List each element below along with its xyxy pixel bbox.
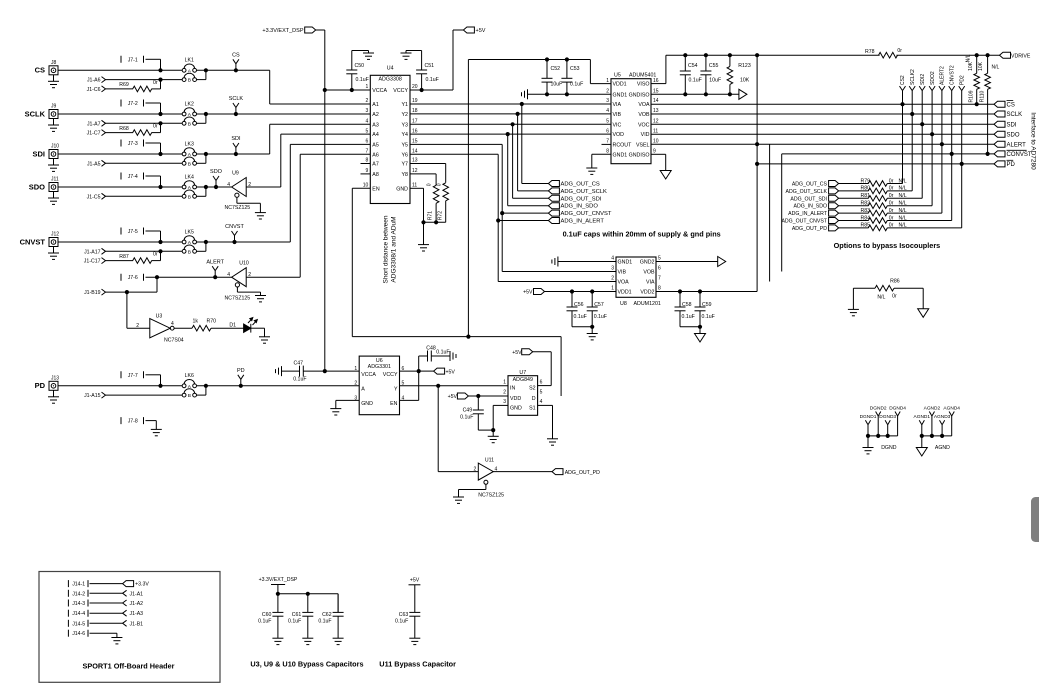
wire U10 input to U4 A6 bbox=[246, 154, 370, 277]
ground GND1 side bbox=[522, 89, 612, 99]
svg-text:R80: R80 bbox=[861, 186, 871, 192]
node CNVST net flag bbox=[225, 224, 244, 242]
svg-text:+5V: +5V bbox=[523, 290, 533, 296]
svg-text:ADG_OUT_CNVST: ADG_OUT_CNVST bbox=[561, 211, 612, 217]
svg-text:U8: U8 bbox=[620, 301, 627, 307]
svg-text:ADG3308/1 and ADuM: ADG3308/1 and ADuM bbox=[391, 216, 398, 282]
svg-text:PD: PD bbox=[1007, 162, 1016, 168]
svg-text:R83: R83 bbox=[861, 208, 871, 214]
svg-text:DGND2: DGND2 bbox=[870, 405, 887, 411]
IC U5 ADUM5401 bbox=[606, 73, 659, 164]
flag ADG_IN_SDO bbox=[794, 203, 839, 210]
svg-text:R78: R78 bbox=[865, 49, 875, 55]
wire U7 S1 to ground bbox=[538, 405, 553, 438]
wire Y1 bus row bbox=[410, 102, 611, 106]
svg-text:0r: 0r bbox=[153, 252, 158, 258]
svg-text:ADG_OUT_CNVST: ADG_OUT_CNVST bbox=[781, 219, 827, 225]
flag CONVST to AD7280 bbox=[994, 150, 1032, 158]
wire SCLK row to U4 A2 bbox=[197, 112, 371, 116]
resistor R109 10K N/L bbox=[966, 54, 980, 104]
svg-text:1k: 1k bbox=[193, 319, 199, 325]
flag J1-A1 bbox=[90, 590, 144, 597]
IC U7 ADG849 bbox=[503, 370, 542, 415]
svg-text:GND: GND bbox=[361, 401, 373, 407]
wire CS row to A1 jog bbox=[197, 68, 270, 72]
svg-text:0r: 0r bbox=[153, 80, 158, 86]
link LK6 bbox=[182, 373, 196, 399]
wire SDI out row bbox=[651, 122, 994, 126]
svg-text:20: 20 bbox=[412, 84, 418, 90]
note options to bypass isocouplers bbox=[834, 241, 941, 250]
ground U7/C49 bbox=[488, 436, 499, 442]
svg-text:9: 9 bbox=[366, 168, 369, 174]
svg-text:2: 2 bbox=[474, 466, 477, 472]
svg-text:J1-A15: J1-A15 bbox=[84, 393, 101, 399]
buffer U9 NC7SZ125 bbox=[225, 171, 252, 212]
svg-text:J14-2: J14-2 bbox=[72, 591, 85, 597]
wire PD out row bbox=[755, 162, 994, 166]
svg-text:SDI2: SDI2 bbox=[920, 74, 926, 85]
wire AGND join bbox=[920, 434, 952, 451]
wire CNVST rise to U4 A5 bbox=[290, 144, 370, 242]
svg-text:J1-C5: J1-C5 bbox=[87, 194, 101, 200]
wire U5 GND1 pin8 to ground bbox=[592, 154, 611, 168]
svg-text:1: 1 bbox=[354, 366, 357, 372]
wire DGND join bbox=[866, 434, 898, 451]
flag ADG_OUT_CS bbox=[548, 181, 600, 188]
svg-text:CNVST: CNVST bbox=[20, 237, 46, 246]
svg-text:CS2: CS2 bbox=[900, 75, 906, 85]
svg-text:SCLK2: SCLK2 bbox=[910, 69, 916, 85]
svg-text:C55: C55 bbox=[709, 63, 719, 69]
svg-text:ADG_OUT_SDI: ADG_OUT_SDI bbox=[561, 196, 602, 202]
svg-text:C48: C48 bbox=[426, 346, 436, 352]
svg-text:C50: C50 bbox=[355, 63, 365, 69]
svg-text:DGND4: DGND4 bbox=[889, 405, 906, 411]
node SCLK2 net flag bbox=[909, 69, 916, 96]
wire U9 input to U4 A4 bbox=[246, 134, 370, 187]
resistor R81 0r N/L bbox=[839, 193, 923, 201]
svg-text:J7-7: J7-7 bbox=[128, 373, 138, 379]
flag J1-A6 bbox=[87, 77, 106, 84]
svg-text:NC7S04: NC7S04 bbox=[164, 338, 184, 344]
svg-text:+3.3V/EXT_DSP: +3.3V/EXT_DSP bbox=[262, 28, 303, 34]
wire C47 to U6 VCCA bbox=[325, 370, 359, 372]
flag SDI to AD7280 bbox=[994, 121, 1017, 128]
capacitor C59 0.1uF bbox=[695, 292, 715, 327]
svg-text:8: 8 bbox=[366, 158, 369, 164]
wire Y6 row to drop bbox=[410, 153, 498, 155]
jumper J7-3 bbox=[121, 140, 161, 155]
ground U10 bbox=[255, 296, 266, 302]
svg-text:A7: A7 bbox=[372, 162, 379, 168]
wire LK2 B out bbox=[197, 112, 208, 123]
svg-text:VIA: VIA bbox=[613, 102, 622, 108]
note short distance bbox=[383, 215, 398, 283]
svg-text:C58: C58 bbox=[682, 302, 692, 308]
svg-text:N/L: N/L bbox=[992, 65, 1000, 71]
connector J8 (CS input) bbox=[35, 60, 59, 88]
svg-text:7: 7 bbox=[606, 139, 609, 145]
svg-text:Y4: Y4 bbox=[402, 132, 409, 138]
node CNVST2 net flag bbox=[949, 65, 956, 95]
svg-text:2: 2 bbox=[606, 89, 609, 95]
flag J1-A15 bbox=[84, 392, 105, 399]
svg-text:5: 5 bbox=[366, 128, 369, 134]
svg-text:U9: U9 bbox=[232, 171, 239, 177]
svg-text:LK3: LK3 bbox=[185, 141, 194, 147]
svg-text:AGND3: AGND3 bbox=[934, 414, 951, 420]
ground C56/C57 bbox=[587, 334, 598, 340]
ground C48 side bbox=[450, 351, 456, 361]
ground GNDISO pin9 triangle bbox=[660, 171, 671, 180]
flag PD to AD7280 bbox=[994, 160, 1016, 168]
node AGND3 net flag bbox=[934, 414, 951, 436]
jumper J7-4 bbox=[121, 173, 161, 188]
ground AGND bbox=[916, 448, 927, 457]
svg-text:10uF: 10uF bbox=[709, 78, 721, 84]
note bypass caps caption bbox=[250, 660, 363, 669]
resistor R82 0r N/L bbox=[839, 201, 933, 209]
wire SCLK2 vertical bbox=[911, 96, 913, 191]
svg-text:J14-1: J14-1 bbox=[72, 582, 85, 588]
svg-text:+5V: +5V bbox=[476, 28, 486, 34]
svg-text:J14-4: J14-4 bbox=[72, 611, 85, 617]
svg-text:C56: C56 bbox=[574, 302, 584, 308]
wire LK5 B out bbox=[197, 240, 208, 251]
resistor R85 0r N/L bbox=[839, 223, 962, 231]
svg-text:C52: C52 bbox=[551, 66, 561, 72]
ground U7 S1 bbox=[547, 439, 558, 445]
svg-text:C51: C51 bbox=[425, 63, 435, 69]
IC U4 ADG3308 bbox=[363, 66, 418, 204]
svg-text:R87: R87 bbox=[119, 254, 129, 260]
svg-text:VCCA: VCCA bbox=[372, 88, 387, 94]
svg-text:CNVST2: CNVST2 bbox=[949, 65, 955, 85]
ground U11 bbox=[453, 497, 464, 503]
capacitor C61 0.1uF bbox=[288, 594, 313, 638]
svg-text:VDD2: VDD2 bbox=[640, 290, 654, 296]
svg-text:Interface to AD7280: Interface to AD7280 bbox=[1030, 112, 1037, 170]
capacitor C49 0.1uF bbox=[460, 396, 484, 430]
svg-text:2: 2 bbox=[354, 381, 357, 387]
wire U9 pin1 to ground bbox=[237, 197, 261, 212]
svg-text:J14-5: J14-5 bbox=[72, 621, 85, 627]
wire +3.3V rail down to U6 VCCA bbox=[323, 30, 327, 373]
wire C56/C57 ground join bbox=[572, 325, 594, 334]
svg-text:Y1: Y1 bbox=[402, 102, 409, 108]
link LK2 bbox=[182, 101, 196, 127]
wire SDO2 vertical bbox=[931, 96, 933, 206]
svg-text:J10: J10 bbox=[51, 144, 59, 150]
flag ALERT to AD7280 bbox=[994, 141, 1026, 148]
svg-text:6: 6 bbox=[606, 128, 609, 134]
svg-text:J1-C7: J1-C7 bbox=[87, 131, 101, 137]
svg-text:SDO: SDO bbox=[29, 182, 45, 191]
flag J1-A7 bbox=[87, 120, 106, 127]
svg-text:ADG_OUT_SCLK: ADG_OUT_SCLK bbox=[561, 189, 608, 195]
svg-text:SDI: SDI bbox=[32, 149, 45, 158]
svg-text:0.1uF: 0.1uF bbox=[689, 78, 702, 84]
capacitor C47 0.1uF bbox=[293, 361, 325, 383]
svg-text:Y2: Y2 bbox=[402, 112, 409, 118]
capacitor C56 0.1uF bbox=[567, 292, 587, 327]
svg-text:14: 14 bbox=[412, 149, 418, 155]
svg-text:Y3: Y3 bbox=[402, 122, 409, 128]
flag J1-A17 bbox=[84, 248, 105, 255]
svg-text:1: 1 bbox=[611, 286, 614, 292]
svg-text:J1-A6: J1-A6 bbox=[87, 78, 101, 84]
svg-text:GND1: GND1 bbox=[613, 92, 628, 98]
wire SDI row from J10 to LK3 bbox=[58, 152, 182, 156]
flag SDO to AD7280 bbox=[994, 131, 1020, 138]
ground C50 bbox=[352, 51, 374, 60]
svg-text:C59: C59 bbox=[702, 302, 712, 308]
power flag +5V U7 VDD bbox=[448, 393, 508, 400]
svg-text:B: B bbox=[188, 78, 191, 84]
svg-text:DGND3: DGND3 bbox=[879, 414, 896, 420]
svg-text:U10: U10 bbox=[239, 261, 249, 267]
flag J1-C7 bbox=[87, 130, 106, 137]
ground C61 bbox=[302, 638, 313, 644]
svg-text:12: 12 bbox=[653, 119, 659, 125]
svg-text:0.1uF: 0.1uF bbox=[702, 314, 715, 320]
wire U10 pin1 to ground bbox=[237, 287, 260, 296]
svg-text:11: 11 bbox=[653, 128, 658, 134]
wire U4 GND to ground bbox=[410, 188, 446, 244]
node DGND1 net flag bbox=[860, 414, 877, 436]
ground C51 bbox=[401, 51, 422, 60]
wire J1-A5 to LK3 B bbox=[106, 162, 183, 164]
svg-text:C62: C62 bbox=[322, 612, 332, 618]
wire U6 GND to ground bbox=[336, 400, 359, 408]
svg-text:VOA: VOA bbox=[638, 102, 650, 108]
svg-text:R68: R68 bbox=[119, 126, 129, 132]
LED D1 bbox=[229, 318, 257, 333]
svg-text:R71: R71 bbox=[427, 211, 433, 220]
resistor R87 0r bbox=[106, 251, 161, 263]
svg-text:B: B bbox=[188, 249, 191, 255]
svg-text:LK6: LK6 bbox=[185, 373, 194, 379]
ground R86 right triangle bbox=[918, 309, 929, 318]
svg-text:J1-B1: J1-B1 bbox=[130, 621, 144, 627]
note interface to AD7280 bbox=[1030, 112, 1037, 170]
note U11 bypass caption bbox=[379, 660, 456, 669]
svg-text:ADUM1201: ADUM1201 bbox=[634, 301, 661, 307]
svg-text:SCLK: SCLK bbox=[25, 109, 46, 118]
svg-text:J1-A7: J1-A7 bbox=[87, 121, 101, 127]
pin J14-4 bbox=[68, 610, 88, 618]
power flag +5V top bbox=[453, 27, 486, 34]
wire U8 VDD2 rise to rail bbox=[756, 55, 758, 291]
wire J1-A15 to LK6 B bbox=[106, 394, 183, 396]
svg-text:VOC: VOC bbox=[638, 122, 650, 128]
svg-text:N/L: N/L bbox=[877, 295, 885, 301]
svg-text:CS: CS bbox=[232, 53, 240, 59]
wire J1-A7 to LK2 B bbox=[106, 121, 183, 125]
svg-text:LK5: LK5 bbox=[185, 229, 194, 235]
wire drop to ADG_OUT_CNVST and U8 VIB bbox=[500, 144, 616, 271]
wire SDO row to U9 output bbox=[197, 185, 232, 189]
svg-text:A2: A2 bbox=[372, 112, 379, 118]
svg-text:8: 8 bbox=[606, 149, 609, 155]
svg-text:R84: R84 bbox=[861, 215, 871, 221]
svg-text:GNDISO: GNDISO bbox=[629, 92, 650, 98]
wire enable line to U7 D bbox=[352, 335, 561, 397]
scrollbar thumb bbox=[1031, 497, 1039, 542]
svg-text:VCCY: VCCY bbox=[383, 372, 398, 378]
svg-text:B: B bbox=[188, 121, 191, 127]
svg-text:D: D bbox=[532, 396, 536, 402]
connector J9 (SCLK input) bbox=[25, 104, 59, 132]
resistor R79 0r N/L bbox=[839, 178, 907, 186]
node AGND2 net flag bbox=[924, 405, 941, 436]
svg-text:10K: 10K bbox=[740, 78, 750, 84]
svg-text:NC7SZ125: NC7SZ125 bbox=[225, 296, 251, 302]
svg-text:SPORT1 Off-Board Header: SPORT1 Off-Board Header bbox=[82, 662, 174, 671]
svg-text:ALERT: ALERT bbox=[206, 259, 224, 265]
wire ALERT2 vertical bbox=[941, 96, 943, 214]
svg-text:VDD1: VDD1 bbox=[613, 82, 627, 88]
svg-text:U11: U11 bbox=[485, 458, 494, 464]
svg-text:ADG_OUT_CS: ADG_OUT_CS bbox=[792, 182, 828, 188]
svg-text:S1: S1 bbox=[529, 405, 536, 411]
flag GNDISO triangle bbox=[739, 89, 747, 99]
svg-text:1: 1 bbox=[503, 379, 506, 385]
wire U6 VCCY node bbox=[400, 356, 421, 373]
buffer U10 NC7SZ125 bbox=[225, 261, 252, 302]
flag ADG_OUT_PD bbox=[552, 469, 600, 476]
svg-text:+5V: +5V bbox=[446, 369, 456, 375]
svg-text:0.1uF: 0.1uF bbox=[570, 82, 583, 88]
svg-text:J1-C6: J1-C6 bbox=[87, 87, 101, 93]
svg-text:U3, U9 & U10 Bypass Capacitors: U3, U9 & U10 Bypass Capacitors bbox=[250, 660, 363, 669]
wire Y4 bus row bbox=[410, 132, 611, 136]
svg-text:U5: U5 bbox=[614, 73, 621, 79]
svg-text:C53: C53 bbox=[570, 66, 580, 72]
svg-text:7: 7 bbox=[366, 149, 369, 155]
svg-text:J12: J12 bbox=[51, 232, 59, 238]
capacitor C53 0.1uF bbox=[561, 60, 583, 95]
capacitor C50 0.1uF bbox=[346, 51, 368, 91]
node AGND1 net flag bbox=[914, 414, 931, 436]
svg-text:PD2: PD2 bbox=[959, 75, 965, 85]
flag ADG_OUT_PD bbox=[792, 225, 839, 232]
node ALERT net flag bbox=[206, 259, 224, 277]
wire Y5 row to drop bbox=[410, 143, 502, 145]
wire C58/C59 ground join bbox=[680, 325, 702, 334]
resistor R70 1k bbox=[192, 319, 216, 332]
power flag +5V U6 VCCY bbox=[419, 368, 456, 375]
svg-text:R85: R85 bbox=[861, 223, 871, 229]
svg-text:J7-5: J7-5 bbox=[128, 229, 138, 235]
svg-text:+5V: +5V bbox=[448, 394, 458, 400]
ground U9 bbox=[255, 213, 266, 219]
svg-text:CS: CS bbox=[1007, 102, 1015, 108]
svg-text:9: 9 bbox=[653, 149, 656, 155]
svg-text:SCLK: SCLK bbox=[1007, 112, 1023, 118]
svg-text:SDI: SDI bbox=[1007, 122, 1017, 128]
svg-text:AGND1: AGND1 bbox=[914, 414, 931, 420]
resistor R71 0 bbox=[426, 183, 439, 222]
svg-text:CS: CS bbox=[35, 66, 45, 75]
wire J1-B19 to ALERT row bbox=[106, 277, 158, 294]
jumper J7-6 bbox=[121, 274, 144, 282]
svg-text:Y7: Y7 bbox=[402, 162, 409, 168]
svg-text:1: 1 bbox=[606, 78, 609, 84]
svg-text:VCCA: VCCA bbox=[361, 372, 376, 378]
svg-text:VOD: VOD bbox=[613, 132, 625, 138]
resistor R83 0r N/L bbox=[839, 208, 942, 216]
wire SDI rise to U4 A3 bbox=[270, 124, 371, 154]
svg-text:J1-A5: J1-A5 bbox=[87, 161, 101, 167]
svg-text:4: 4 bbox=[227, 182, 230, 188]
pin J14-6 bbox=[68, 630, 88, 638]
svg-text:C47: C47 bbox=[293, 361, 303, 367]
inverter U3 NC7S04 bbox=[136, 314, 184, 344]
node DGND3 net flag bbox=[879, 414, 896, 436]
svg-text:R79: R79 bbox=[861, 178, 871, 184]
wire drop to ADG_OUT_CS bbox=[522, 104, 549, 184]
svg-text:NC7SZ125: NC7SZ125 bbox=[478, 493, 504, 499]
svg-text:J7-6: J7-6 bbox=[128, 275, 138, 281]
svg-text:VIC: VIC bbox=[613, 122, 622, 128]
svg-text:ADG_OUT_PD: ADG_OUT_PD bbox=[792, 226, 827, 232]
svg-text:U7: U7 bbox=[519, 370, 526, 376]
svg-text:3: 3 bbox=[503, 399, 506, 405]
svg-text:13: 13 bbox=[412, 158, 418, 164]
svg-text:NC7SZ125: NC7SZ125 bbox=[225, 205, 251, 211]
svg-text:LK1: LK1 bbox=[185, 58, 194, 64]
svg-text:0.1uF: 0.1uF bbox=[574, 314, 587, 320]
wire J7-8 to ground bbox=[146, 421, 157, 430]
svg-text:J7-3: J7-3 bbox=[128, 141, 138, 147]
svg-text:4: 4 bbox=[171, 321, 174, 327]
svg-text:Y: Y bbox=[394, 387, 398, 393]
svg-text:3: 3 bbox=[606, 98, 609, 104]
wire SDI2 vertical bbox=[921, 96, 923, 199]
svg-text:J1-A3: J1-A3 bbox=[130, 611, 144, 617]
flag ADG_IN_ALERT bbox=[548, 218, 604, 225]
flag J1-B1 bbox=[90, 620, 144, 627]
svg-text:A8: A8 bbox=[372, 172, 379, 178]
wire SCLK row from J9 to LK2 bbox=[58, 112, 182, 116]
power flag VDRIVE bbox=[1000, 52, 1031, 59]
svg-text:GND: GND bbox=[396, 186, 408, 192]
svg-text:VISO: VISO bbox=[637, 82, 650, 88]
svg-text:J13: J13 bbox=[51, 375, 59, 381]
pin J14-1 bbox=[68, 580, 88, 588]
resistor R80 0r N/L bbox=[839, 186, 913, 194]
svg-text:4: 4 bbox=[606, 108, 609, 114]
svg-text:J1-C17: J1-C17 bbox=[84, 259, 101, 265]
wire CS out row bbox=[651, 102, 994, 106]
svg-text:ADG_OUT_SDI: ADG_OUT_SDI bbox=[790, 196, 827, 202]
svg-text:Y6: Y6 bbox=[402, 152, 409, 158]
svg-text:14: 14 bbox=[653, 98, 659, 104]
buffer U11 NC7SZ125 bbox=[474, 458, 505, 499]
svg-text:J7-1: J7-1 bbox=[128, 57, 138, 63]
flag ADG_OUT_SDI bbox=[790, 195, 838, 202]
svg-text:VSEL: VSEL bbox=[636, 142, 650, 148]
capacitor C60 0.1uF bbox=[258, 594, 283, 638]
wire U4 Y8 to R71 bbox=[410, 174, 436, 185]
svg-text:GND: GND bbox=[510, 405, 522, 411]
wire +5V iso rail bbox=[468, 57, 611, 336]
svg-text:ADG_IN_ALERT: ADG_IN_ALERT bbox=[561, 219, 605, 225]
svg-text:R70: R70 bbox=[207, 319, 217, 325]
link LK4 bbox=[182, 174, 196, 200]
